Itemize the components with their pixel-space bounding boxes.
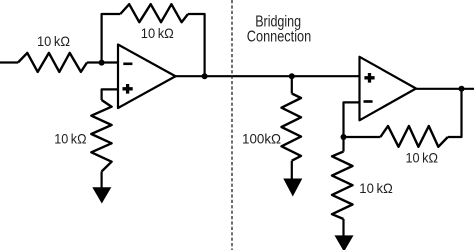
- wire U2 inverting input jog: [344, 102, 360, 137]
- resistor R1 10k input: [18, 53, 87, 72]
- ground G2: [283, 179, 302, 197]
- op-amp U2: [360, 57, 417, 121]
- node E junction dot: [341, 134, 347, 140]
- ground G3: [335, 235, 354, 250]
- resistor R4 100k to ground: [282, 94, 302, 161]
- wire R4 to ground stem: [291, 161, 293, 179]
- svg-text:100kΩ: 100kΩ: [242, 131, 281, 147]
- node C junction dot: [289, 73, 295, 79]
- U1 minus sign: [123, 63, 132, 66]
- svg-text:Connection: Connection: [247, 29, 311, 46]
- svg-text:10 kΩ: 10 kΩ: [406, 149, 439, 165]
- resistor R5 10k feedback: [380, 126, 447, 147]
- wire U2 output: [416, 88, 474, 90]
- U2 minus sign: [364, 100, 373, 103]
- svg-text:10 kΩ: 10 kΩ: [141, 25, 174, 41]
- U2 plus sign: [364, 73, 374, 83]
- wire U1 output to U2 input: [176, 75, 360, 77]
- node D junction dot: [459, 86, 465, 92]
- wire R1 to op-amp U1 inverting input: [87, 61, 118, 63]
- resistor R3 10k to ground: [91, 100, 111, 172]
- svg-text:10 kΩ: 10 kΩ: [359, 180, 393, 196]
- node B junction dot: [202, 73, 208, 79]
- resistor R6 10k to ground: [332, 152, 353, 220]
- wire 100k branch stem: [291, 76, 293, 93]
- wire node E down to R6: [342, 137, 344, 152]
- bridging dashed line: [231, 0, 233, 250]
- label Bridging Connection: [247, 13, 311, 45]
- wire feedback left vertical and top rail: [102, 14, 121, 63]
- wire U1 non-inverting input: [102, 89, 118, 100]
- svg-text:10 kΩ: 10 kΩ: [54, 130, 86, 146]
- node A junction dot: [99, 60, 105, 66]
- U1 plus sign: [123, 84, 133, 94]
- svg-text:10 kΩ: 10 kΩ: [37, 33, 70, 49]
- ground G1: [92, 187, 111, 203]
- wire R5 to output node D: [448, 89, 462, 137]
- op-amp U1: [118, 45, 176, 109]
- resistor R2 10k feedback top: [120, 4, 188, 22]
- wire R3 to ground stem: [100, 172, 102, 189]
- wire feedback right rail down to output node B: [188, 14, 205, 76]
- wire input left: [0, 61, 18, 63]
- wire node E to R5: [344, 136, 381, 138]
- wire R6 to ground stem: [342, 219, 344, 236]
